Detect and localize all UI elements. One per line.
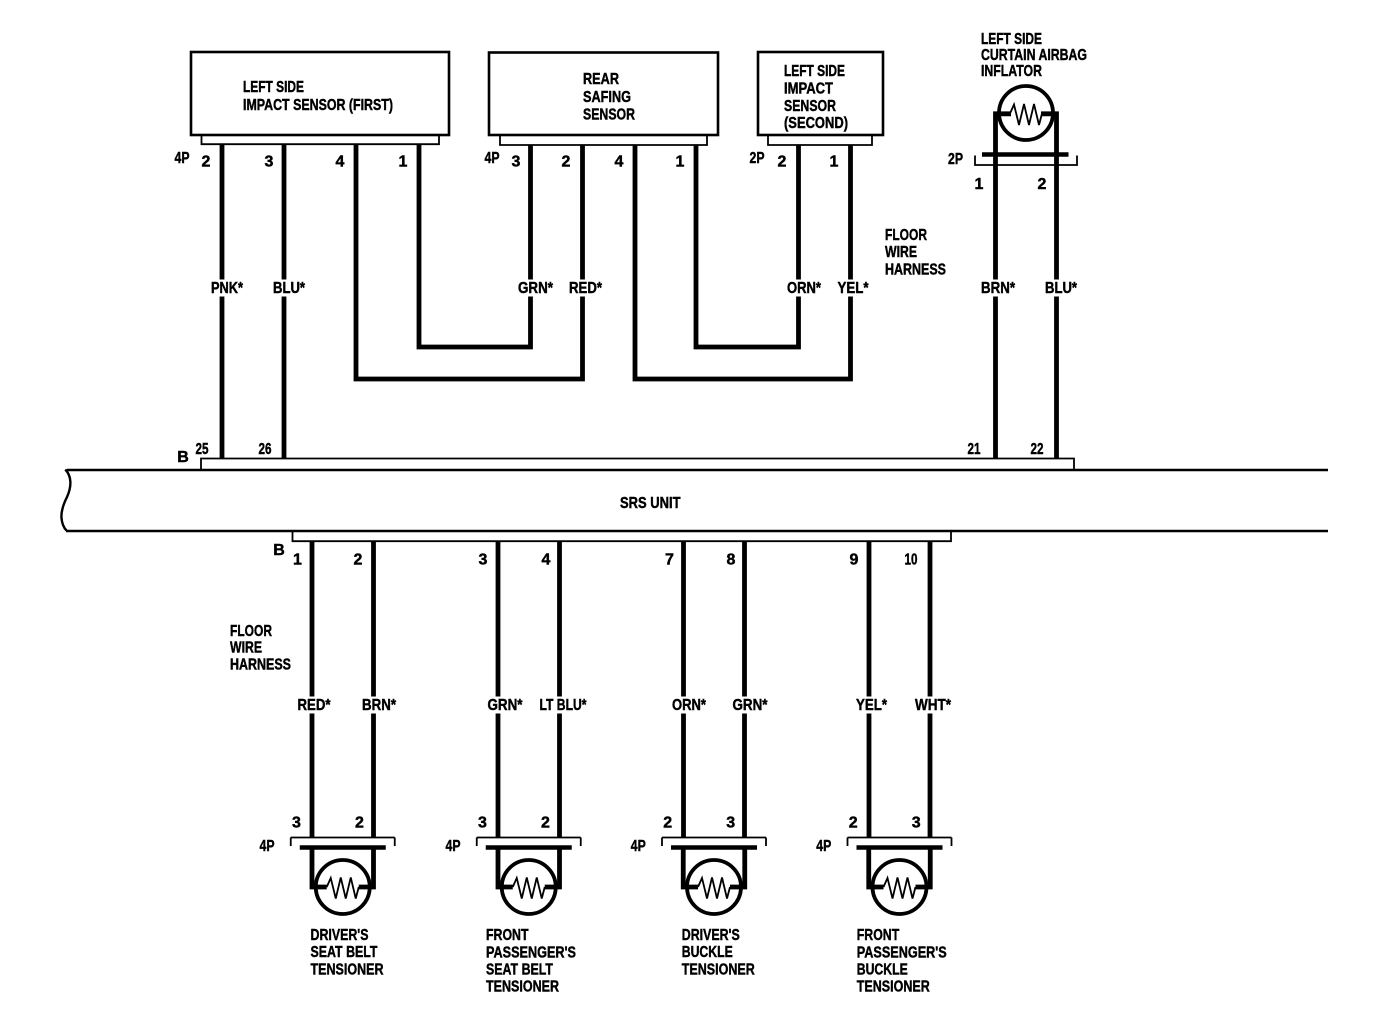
svg-text:2: 2 [778, 154, 787, 171]
wire ORN* (SRS B7 to driver's buckle tensioner pin2) [681, 541, 686, 838]
svg-text:SEAT BELT: SEAT BELT [311, 944, 378, 961]
wire LT BLU* (SRS B4 to front passenger's seat belt tensioner pin2) [557, 541, 562, 838]
svg-text:GRN*: GRN* [733, 697, 769, 714]
wire stub left into squib [498, 846, 513, 888]
svg-text:9: 9 [850, 552, 859, 569]
wire stub left into squib [869, 846, 884, 888]
svg-text:26: 26 [259, 441, 272, 458]
svg-text:4P: 4P [631, 838, 646, 855]
svg-text:FRONT: FRONT [857, 927, 900, 944]
svg-text:BLU*: BLU* [273, 280, 306, 297]
wire colour label BRN* [978, 280, 1018, 297]
svg-text:3: 3 [912, 815, 921, 832]
SRS unit box top edge [67, 469, 1328, 472]
svg-text:IMPACT SENSOR (FIRST): IMPACT SENSOR (FIRST) [243, 97, 393, 114]
svg-text:4P: 4P [485, 150, 500, 167]
connector 2P of inflator: bracket [975, 156, 1077, 166]
tensioner 4: front passenger's buckle tensioner [816, 815, 951, 996]
svg-text:ORN*: ORN* [672, 697, 707, 714]
svg-text:B: B [273, 542, 285, 559]
svg-text:WHT*: WHT* [915, 697, 952, 714]
svg-text:FRONT: FRONT [486, 927, 529, 944]
svg-text:3: 3 [265, 154, 274, 171]
svg-text:3: 3 [512, 154, 521, 171]
svg-text:BLU*: BLU* [1045, 280, 1078, 297]
box: rear safing sensor [489, 53, 718, 136]
tensioner squib (circle) [316, 860, 370, 914]
svg-text:BUCKLE: BUCKLE [857, 962, 908, 979]
svg-text:2: 2 [663, 815, 672, 832]
wire YEL* (SRS B9 to front passenger's buckle tensioner pin2) [867, 541, 872, 838]
SRS unit bottom connector B strip [293, 531, 952, 541]
inflator resistor zigzag [1010, 104, 1042, 125]
wire colour label RED* [295, 697, 334, 714]
connector 4P contact bar [486, 845, 572, 850]
wire YEL* U-loop (rear safing sensor pin4 to sensor2 pin1) [635, 145, 851, 379]
svg-text:TENSIONER: TENSIONER [486, 979, 559, 996]
svg-text:2: 2 [541, 815, 550, 832]
wire colour label GRN* [515, 280, 556, 297]
wire ORN* U-loop (rear safing sensor pin1 to sensor2 pin2) [696, 145, 799, 347]
wire colour label YEL* [853, 697, 890, 714]
svg-text:22: 22 [1031, 441, 1044, 458]
svg-text:10: 10 [905, 552, 918, 569]
SRS unit box torn left edge [61, 470, 70, 531]
svg-text:INFLATOR: INFLATOR [981, 63, 1042, 80]
wire stub right into squib [916, 846, 931, 888]
connector 4P of rear safing sensor [500, 135, 707, 145]
svg-text:CURTAIN AIRBAG: CURTAIN AIRBAG [981, 47, 1087, 64]
connector 4P of left side impact sensor (first) [202, 135, 440, 144]
svg-text:2: 2 [354, 552, 363, 569]
tensioner resistor zigzag [327, 878, 359, 899]
svg-text:FLOOR: FLOOR [885, 227, 927, 244]
wire stub left into squib [683, 846, 698, 888]
wire BLU* (inflator pin2 to SRS B22) [1041, 114, 1057, 459]
svg-text:TENSIONER: TENSIONER [857, 979, 930, 996]
wire colour label BLU* [270, 280, 308, 297]
tensioner resistor zigzag [884, 878, 916, 899]
connector 2P of inflator: contact bar [982, 152, 1069, 157]
wire colour label LT BLU* [537, 697, 590, 714]
wire GRN* (SRS B8 to driver's buckle tensioner pin3) [742, 541, 747, 838]
wire colour label PNK* [208, 280, 246, 297]
svg-text:IMPACT: IMPACT [784, 81, 833, 98]
connector 4P bracket [662, 838, 766, 847]
svg-text:FLOOR: FLOOR [230, 623, 272, 640]
svg-text:HARNESS: HARNESS [230, 657, 291, 674]
wire colour label GRN* [485, 697, 526, 714]
wire BRN* (SRS B2 to driver's seat belt tensioner pin2) [371, 541, 376, 838]
svg-text:ORN*: ORN* [787, 280, 822, 297]
svg-text:LT BLU*: LT BLU* [540, 697, 588, 714]
svg-text:2: 2 [562, 154, 571, 171]
svg-text:2: 2 [849, 815, 858, 832]
svg-text:BRN*: BRN* [981, 280, 1016, 297]
connector 4P contact bar [300, 845, 386, 850]
svg-text:(SECOND): (SECOND) [784, 115, 848, 132]
svg-text:YEL*: YEL* [838, 280, 870, 297]
svg-text:SENSOR: SENSOR [784, 98, 836, 115]
svg-text:YEL*: YEL* [856, 697, 888, 714]
wire colour label ORN* [669, 697, 709, 714]
svg-text:3: 3 [479, 552, 488, 569]
connector 4P bracket [848, 838, 952, 847]
svg-text:1: 1 [293, 552, 302, 569]
svg-text:B: B [177, 449, 189, 466]
wire RED* U-loop (sensor1 pin4 to rear safing sensor pin2) [356, 144, 583, 379]
SRS unit top connector B strip [201, 459, 1074, 470]
svg-text:PASSENGER'S: PASSENGER'S [857, 944, 947, 961]
svg-text:2: 2 [355, 815, 364, 832]
svg-text:1: 1 [399, 154, 408, 171]
wire colour label GRN* (buckle) [730, 697, 771, 714]
wire GRN* U-loop (sensor1 pin1 to rear safing sensor pin3) [419, 144, 531, 347]
svg-text:TENSIONER: TENSIONER [311, 961, 384, 978]
svg-text:1: 1 [975, 176, 984, 193]
svg-text:WIRE: WIRE [885, 244, 917, 261]
inflator squib (circle) [999, 86, 1053, 140]
svg-text:PASSENGER'S: PASSENGER'S [486, 944, 576, 961]
box: left side impact sensor (second) [758, 52, 883, 135]
tensioner squib (circle) [873, 860, 927, 914]
svg-text:3: 3 [726, 815, 735, 832]
wire RED* (SRS B1 to driver's seat belt tensioner pin3) [310, 541, 315, 838]
connector 2P of left side impact sensor (second) [768, 135, 872, 145]
svg-text:1: 1 [676, 154, 685, 171]
svg-text:RED*: RED* [298, 697, 332, 714]
svg-text:4P: 4P [816, 838, 831, 855]
tensioner 1: driver's seat belt tensioner [260, 815, 395, 979]
svg-text:25: 25 [196, 441, 209, 458]
svg-text:8: 8 [727, 552, 736, 569]
svg-text:2P: 2P [948, 151, 963, 168]
wire stub right into squib [359, 846, 374, 888]
svg-text:LEFT SIDE: LEFT SIDE [784, 63, 845, 80]
wire colour label WHT* [912, 697, 954, 714]
svg-text:SRS UNIT: SRS UNIT [620, 495, 681, 512]
svg-text:4: 4 [615, 154, 624, 171]
svg-text:2: 2 [202, 154, 211, 171]
svg-text:2P: 2P [750, 150, 765, 167]
tensioner 2: front passenger's seat belt tensioner [446, 815, 581, 996]
wire PNK* (sensor1 pin2 to SRS B25) [220, 144, 225, 459]
svg-text:SAFING: SAFING [583, 89, 631, 106]
svg-text:1: 1 [830, 154, 839, 171]
wire stub right into squib [545, 846, 560, 888]
SRS unit box bottom edge [66, 530, 1328, 533]
tensioner squib (circle) [687, 860, 741, 914]
svg-text:GRN*: GRN* [488, 697, 524, 714]
wire stub right into squib [730, 846, 745, 888]
svg-text:BUCKLE: BUCKLE [682, 944, 733, 961]
svg-text:LEFT SIDE: LEFT SIDE [981, 31, 1042, 48]
svg-text:PNK*: PNK* [211, 280, 244, 297]
wire BLU* (sensor1 pin3 to SRS B26) [282, 144, 287, 459]
connector 4P bracket [477, 838, 581, 847]
tensioner squib (circle) [502, 860, 556, 914]
svg-text:3: 3 [292, 815, 301, 832]
svg-text:TENSIONER: TENSIONER [682, 961, 755, 978]
wire WHT* (SRS B10 to front passenger's buckle tensioner pin3) [928, 541, 933, 838]
svg-text:SENSOR: SENSOR [583, 107, 635, 124]
svg-text:4P: 4P [260, 838, 275, 855]
connector 4P contact bar [857, 845, 943, 850]
connector 4P contact bar [671, 845, 757, 850]
svg-text:4: 4 [542, 552, 551, 569]
svg-text:4P: 4P [175, 150, 190, 167]
wire stub left into squib [312, 846, 327, 888]
svg-text:RED*: RED* [569, 280, 603, 297]
tensioner 3: driver's buckle tensioner [631, 815, 766, 979]
wire BRN* (inflator pin1 to SRS B21) [996, 114, 1012, 459]
svg-text:2: 2 [1038, 176, 1047, 193]
svg-text:3: 3 [478, 815, 487, 832]
svg-text:LEFT SIDE: LEFT SIDE [243, 79, 304, 96]
svg-text:21: 21 [968, 441, 981, 458]
wire colour label BRN* [359, 697, 399, 714]
tensioner resistor zigzag [513, 878, 545, 899]
box: left side impact sensor (first) [191, 52, 449, 135]
svg-text:DRIVER'S: DRIVER'S [311, 927, 369, 944]
connector 4P bracket [291, 838, 395, 847]
svg-text:BRN*: BRN* [362, 697, 397, 714]
svg-text:4: 4 [336, 154, 345, 171]
svg-text:7: 7 [665, 552, 674, 569]
wire colour label BLU* (inflator right) [1042, 280, 1080, 297]
svg-text:SEAT BELT: SEAT BELT [486, 962, 553, 979]
wire colour label ORN* [784, 280, 824, 297]
svg-text:4P: 4P [446, 838, 461, 855]
tensioner resistor zigzag [698, 878, 730, 899]
wire colour label RED* [566, 280, 605, 297]
svg-text:REAR: REAR [583, 71, 619, 88]
wire colour label YEL* [835, 280, 872, 297]
svg-text:WIRE: WIRE [230, 640, 262, 657]
svg-text:GRN*: GRN* [518, 280, 554, 297]
svg-text:DRIVER'S: DRIVER'S [682, 927, 740, 944]
svg-text:HARNESS: HARNESS [885, 262, 946, 279]
wire GRN* (SRS B3 to front passenger's seat belt tensioner pin3) [496, 541, 501, 838]
